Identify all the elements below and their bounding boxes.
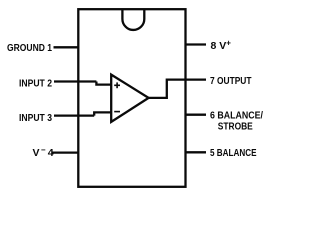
IC package body (8-pin DIP outline) — [78, 9, 185, 187]
svg-text:INPUT 3: INPUT 3 — [19, 112, 52, 124]
pin-1 orientation notch — [122, 9, 144, 30]
op-amp - input marker — [114, 111, 120, 113]
pin 4 lead — [52, 151, 79, 153]
op-amp A1 triangle — [111, 75, 148, 122]
pin 5 lead — [186, 151, 207, 153]
pin 1 lead — [54, 46, 79, 48]
pin 3 lead — [54, 114, 94, 116]
pin 2 lead — [54, 80, 96, 82]
wire pin2 jog to noninverting input — [96, 82, 111, 85]
svg-text:7 OUTPUT: 7 OUTPUT — [210, 75, 252, 87]
svg-text:5 BALANCE: 5 BALANCE — [210, 147, 257, 159]
svg-text:INPUT 2: INPUT 2 — [19, 78, 52, 90]
pin 8 lead — [186, 43, 207, 45]
wire pin3 jog to inverting input — [94, 112, 111, 115]
pin 6 lead — [186, 114, 207, 116]
svg-text:STROBE: STROBE — [218, 120, 253, 132]
pin 7 lead / output wire — [149, 80, 206, 98]
svg-text:GROUND 1: GROUND 1 — [7, 42, 52, 54]
op-amp + input marker — [114, 82, 120, 88]
